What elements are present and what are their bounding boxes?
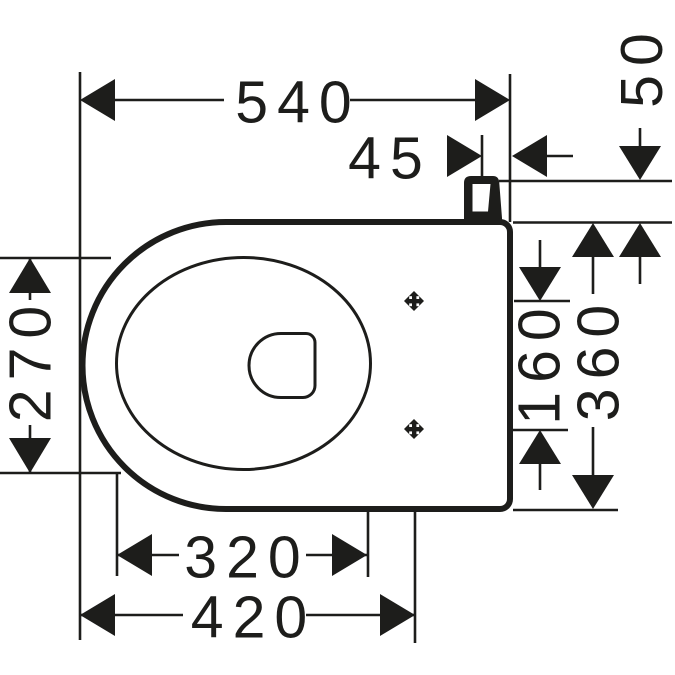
extension line 45-left x=482 [481,135,484,176]
toilet body outline [83,222,511,509]
svg-text:50: 50 [609,24,675,108]
extension line body bottom right y=510 [513,509,618,512]
mounting hole marker top [404,291,424,311]
arrow 270 up [9,258,51,293]
dim line 45 tail [547,155,573,158]
flush pipe tab [464,176,502,222]
arrow 45 left-pointing [512,135,547,177]
extension line right vertical x=510 [509,74,512,222]
flush outlet opening [249,334,315,398]
toilet bowl inner rim oval [117,258,371,470]
arrow 50 up [619,223,661,257]
arrow 160 down [519,267,561,301]
extension line bowl bottom y=473 [0,472,121,475]
dim line 160 stubs [539,240,542,490]
dim line 420 [80,614,415,617]
arrow 160 up [519,430,561,464]
svg-text:360: 360 [566,296,632,421]
svg-text:420: 420 [191,584,316,650]
extension line 420-right x=415 [414,511,417,643]
arrow 540 right [475,79,510,121]
dim line 360 stubs [592,257,595,476]
svg-text:160: 160 [507,299,573,424]
svg-text:45: 45 [348,125,432,191]
svg-text:270: 270 [0,297,64,422]
mounting hole marker bottom [404,419,424,439]
extension line bowl top y=258 [0,257,111,260]
arrow 270 down [9,438,51,473]
arrow 420 left [80,594,115,636]
extension line body top right y=222.5 [513,221,672,224]
extension line bowl-left x=117 [116,474,119,576]
arrow 360 up [572,223,614,257]
svg-text:320: 320 [184,525,309,591]
svg-text:540: 540 [235,70,360,136]
arrow 420 right [380,594,415,636]
arrow 320 left [117,534,152,576]
extension line hole1 y=301 [514,300,570,303]
dim line 320 [117,554,367,557]
extension line tab top y=181 [499,180,672,183]
dim line 540 [112,99,477,102]
extension line left vertical x=80 [79,72,82,640]
dim line 50 stubs [639,128,642,284]
extension line 320-right x=368 [367,511,370,577]
arrow 360 down [572,475,614,509]
dim line 270 [29,258,32,473]
extension line hole2 y=430 [513,429,568,432]
arrow 50 down [619,146,661,180]
arrow 540 left [80,79,115,121]
arrow 45 right-pointing [447,135,482,177]
arrow 320 right [332,534,367,576]
